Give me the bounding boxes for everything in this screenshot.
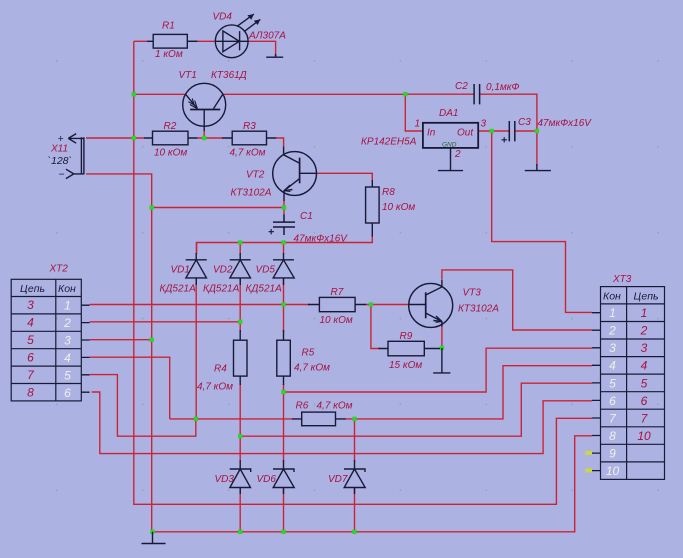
- pin mark XT3 pin9 yellow: [586, 451, 593, 455]
- LED VD4: [215, 14, 260, 58]
- wire VD5 bottom to pin1 row: [283, 279, 285, 305]
- wire R4 top lead: [239, 322, 241, 332]
- svg-text:АЛ307А: АЛ307А: [248, 31, 286, 42]
- svg-text:1: 1: [609, 306, 616, 320]
- capacitor C1: [269, 215, 296, 236]
- node VT3 emitter R9: [440, 346, 444, 350]
- svg-text:1: 1: [415, 119, 421, 130]
- svg-text:КТ361Д: КТ361Д: [211, 70, 247, 81]
- wire VD6 top lead: [283, 392, 285, 461]
- svg-text:6: 6: [27, 351, 34, 365]
- svg-text:4,7 кОм: 4,7 кОм: [230, 148, 266, 159]
- svg-text:4,7 кОм: 4,7 кОм: [317, 401, 353, 412]
- diode VD6: [273, 460, 294, 494]
- svg-text:1: 1: [641, 306, 648, 320]
- connector X11: [66, 134, 84, 179]
- svg-text:10 кОм: 10 кОм: [320, 315, 353, 326]
- svg-text:Цепь: Цепь: [20, 283, 45, 295]
- wire VD1 column: [196, 243, 198, 255]
- wire main left rail from R1 down to bottom then right, up to XT3 pin7: [134, 41, 592, 504]
- XT3 numbers: [606, 306, 651, 478]
- wire VD1 bottom link up to R6 node: [189, 419, 196, 436]
- wire VD6 bottom to ground rail: [283, 488, 285, 532]
- connector table XT2: [11, 279, 89, 401]
- connector table XT3: [592, 287, 665, 480]
- resistor R7: [308, 297, 366, 311]
- resistor R8: [366, 180, 380, 237]
- transistor VT3: [409, 280, 453, 328]
- svg-text:2: 2: [640, 324, 648, 338]
- wire R1 to VD4: [187, 40, 215, 42]
- resistor R3: [222, 131, 276, 145]
- svg-text:1 кОм: 1 кОм: [155, 49, 183, 60]
- wire XT2 pin2 to VD2 column: [90, 321, 241, 323]
- svg-text:С1: С1: [300, 211, 313, 222]
- svg-text:ХТ3: ХТ3: [612, 274, 632, 285]
- svg-text:С3: С3: [518, 117, 531, 128]
- node ground rail left: [150, 530, 154, 534]
- node DA1 out: [490, 129, 494, 133]
- svg-text:2: 2: [454, 149, 461, 160]
- svg-text:4: 4: [609, 359, 616, 373]
- resistor R2: [144, 131, 198, 145]
- wire C1 bottom rail to R8 bottom: [197, 235, 373, 254]
- wire ground column to C1 top node: [152, 207, 284, 209]
- wire VT2 emitter to ground node: [283, 201, 285, 208]
- wire R4 bottom to pin5 link node: [239, 384, 241, 436]
- svg-text:In: In: [427, 128, 436, 139]
- wire XT2 pin5 down to VD1 bottom link: [90, 375, 189, 437]
- diode VD1: [186, 253, 207, 285]
- capacitor C3: [502, 121, 515, 143]
- wire VT3 collector to XT3 pin2: [442, 270, 592, 330]
- node ground column top: [150, 205, 154, 209]
- wire XT2 pin3 to ground column: [90, 339, 152, 341]
- wire R5 bottom to XT3 pin3 node: [283, 384, 285, 392]
- svg-text:С2: С2: [455, 81, 468, 92]
- svg-text:5: 5: [641, 377, 648, 391]
- wire VD3 top lead: [239, 436, 241, 461]
- diode VD3: [230, 460, 251, 494]
- wire VT1 collector to DA1 input node: [223, 93, 405, 95]
- svg-text:15 кОм: 15 кОм: [389, 360, 422, 371]
- XT2 circuit numbers: [27, 298, 71, 400]
- voltage regulator DA1: [423, 123, 478, 148]
- transistor VT2: [273, 147, 317, 202]
- svg-text:R7: R7: [331, 287, 344, 298]
- svg-text:10: 10: [606, 464, 620, 478]
- wire R7 right to VT3 base: [365, 304, 409, 306]
- svg-text:VD6: VD6: [257, 474, 277, 485]
- pin mark XT3 pin10 yellow: [586, 468, 593, 472]
- svg-text:8: 8: [609, 429, 616, 443]
- node VT2 emitter C1: [282, 205, 286, 209]
- resistor R6: [292, 412, 346, 426]
- node VD5 bottom R5: [281, 302, 285, 306]
- wire C2 right to ground node: [480, 94, 537, 131]
- wire X11 minus to ground column down to ground rail: [86, 174, 152, 532]
- svg-text:R9: R9: [400, 331, 413, 342]
- wire R9 left to base node: [371, 305, 380, 349]
- wire VT3 emitter to R9 node: [441, 326, 443, 348]
- svg-text:VT1: VT1: [179, 70, 197, 81]
- svg-text:ХТ2: ХТ2: [49, 264, 69, 275]
- svg-text:10 кОм: 10 кОм: [154, 148, 187, 159]
- node R9 top: [369, 302, 373, 306]
- svg-text:КТ3102А: КТ3102А: [231, 188, 272, 199]
- wire XT2 pin1 row to R7: [90, 304, 310, 306]
- wire DA1 input: [405, 94, 423, 131]
- svg-text:КД521А: КД521А: [203, 284, 240, 295]
- resistor R1: [147, 34, 198, 48]
- node VD1 bottom R6 left: [194, 417, 198, 421]
- wire ground rail to XT3 pin8: [153, 436, 593, 532]
- svg-text:КР142ЕН5А: КР142ЕН5А: [361, 137, 417, 148]
- svg-text:6: 6: [609, 394, 616, 408]
- svg-text:GND: GND: [442, 142, 457, 149]
- wire input node to C2: [405, 93, 474, 95]
- svg-text:1: 1: [64, 299, 71, 313]
- node VD2 bottom R4 pin2: [238, 320, 242, 324]
- svg-text:R6: R6: [296, 401, 309, 412]
- wire pin5 link node to XT3 pin5: [240, 383, 592, 436]
- TABLES: [11, 279, 664, 479]
- svg-text:Out: Out: [457, 128, 474, 139]
- svg-text:10: 10: [637, 429, 651, 443]
- wire out node to XT3 pin1: [492, 131, 592, 312]
- diode VD2: [230, 253, 251, 285]
- ground VT3: [433, 348, 450, 373]
- wire VD3 bottom to ground rail: [239, 488, 241, 532]
- node VD2 top: [238, 240, 242, 244]
- svg-text:3: 3: [64, 334, 71, 348]
- svg-text:R4: R4: [214, 364, 227, 375]
- svg-text:8: 8: [27, 386, 34, 400]
- node XT2 pin3 ground: [150, 338, 154, 342]
- svg-text:5: 5: [609, 377, 616, 391]
- wire R3 right to VT2 collector: [276, 138, 284, 147]
- svg-text:47мкФх16V: 47мкФх16V: [294, 234, 349, 245]
- wire VD2 top lead: [239, 243, 241, 255]
- wire DA1 out to C3: [478, 130, 509, 132]
- svg-text:R5: R5: [302, 348, 315, 359]
- capacitor C2: [474, 84, 480, 104]
- svg-text:10 кОм: 10 кОм: [382, 202, 415, 213]
- wire VD2 bottom to pin2 row: [239, 279, 241, 322]
- svg-text:4,7 кОм: 4,7 кОм: [197, 382, 233, 393]
- wire XT3 pin3 node to pin3: [284, 348, 593, 392]
- svg-text:Х11: Х11: [50, 144, 68, 155]
- ground VD4: [266, 54, 283, 57]
- svg-text:`128`: `128`: [48, 155, 73, 167]
- wire R5 top lead: [283, 305, 285, 333]
- svg-text:3: 3: [609, 341, 616, 355]
- svg-text:3: 3: [641, 341, 648, 355]
- svg-text:КД521А: КД521А: [160, 284, 197, 295]
- ground main: [142, 532, 166, 544]
- svg-text:VT3: VT3: [463, 288, 482, 299]
- wire XT2 pin4 right and down to R6 row: [90, 357, 170, 419]
- svg-text:R1: R1: [162, 21, 175, 32]
- ground C3: [525, 164, 551, 171]
- svg-text:4: 4: [27, 316, 34, 330]
- diode VD7: [344, 460, 365, 494]
- svg-text:4,7 кОм: 4,7 кОм: [294, 363, 330, 374]
- wire VT1 base down: [203, 131, 205, 139]
- wire R6 right to XT3 pin4: [345, 366, 593, 419]
- wire VT2 base to R8 top: [317, 173, 373, 181]
- node rail-VT1: [132, 92, 136, 96]
- node VD7 ground: [352, 530, 356, 534]
- wire X11 plus to rail: [86, 137, 144, 139]
- svg-text:DA1: DA1: [439, 108, 458, 119]
- wire VD1 bottom to R6 node: [195, 279, 197, 419]
- node VD3 ground: [238, 530, 242, 534]
- svg-text:VD4: VD4: [213, 12, 233, 23]
- node R6 right VD7: [352, 417, 356, 421]
- svg-text:КТ3102А: КТ3102А: [458, 304, 499, 315]
- wire rail to VT1 emitter: [134, 93, 186, 95]
- resistor R9: [379, 341, 441, 356]
- svg-text:VD3: VD3: [215, 474, 235, 485]
- svg-text:47мкФх16V: 47мкФх16V: [538, 118, 593, 129]
- svg-text:0,1мкФ: 0,1мкФ: [486, 82, 519, 93]
- wire C1 top lead: [283, 208, 285, 216]
- node rail-X11-R2: [132, 136, 136, 140]
- wire C3 right to ground drop: [515, 131, 537, 165]
- node VD6 ground: [281, 530, 285, 534]
- svg-text:VD5: VD5: [256, 265, 276, 276]
- ground DA1: [438, 148, 463, 171]
- node VT1 base R2 R3: [202, 136, 206, 140]
- svg-text:5: 5: [64, 369, 71, 383]
- wire R2 right to VT1 base junction: [198, 137, 223, 139]
- wire XT2 pin6 down right to XT3 pin6: [92, 392, 592, 454]
- wire VD7 bottom to ground rail: [354, 488, 356, 532]
- resistor R5: [277, 330, 291, 385]
- svg-text:2: 2: [63, 316, 71, 330]
- svg-text:R8: R8: [382, 187, 395, 198]
- svg-text:Цепь: Цепь: [634, 291, 659, 303]
- svg-text:6: 6: [641, 394, 648, 408]
- wire VD7 top to R6 right node: [354, 419, 356, 461]
- node C2 C3 ground: [535, 129, 539, 133]
- svg-text:3: 3: [27, 298, 34, 312]
- resistor R4: [234, 330, 248, 385]
- svg-text:4: 4: [64, 351, 71, 365]
- svg-text:9: 9: [609, 447, 616, 461]
- node R5 bottom VD6 pin3: [281, 390, 285, 394]
- svg-text:VD7: VD7: [328, 474, 348, 485]
- svg-text:2: 2: [608, 324, 616, 338]
- svg-text:5: 5: [27, 333, 34, 347]
- svg-text:4: 4: [641, 359, 648, 373]
- node DA1 input: [403, 92, 407, 96]
- svg-text:−: −: [59, 169, 65, 181]
- svg-text:VD1: VD1: [171, 265, 190, 276]
- wire R6 row: [170, 418, 293, 420]
- node R4 bottom VD3 pin5: [238, 434, 242, 438]
- wire R1 left lead: [134, 40, 147, 42]
- svg-text:VT2: VT2: [246, 170, 265, 181]
- node C1 bottom VD5: [281, 240, 285, 244]
- svg-text:КД521А: КД521А: [246, 284, 283, 295]
- transistor VT1: [183, 83, 226, 131]
- svg-text:R2: R2: [164, 121, 177, 132]
- svg-text:3: 3: [481, 119, 487, 130]
- svg-text:6: 6: [64, 386, 71, 400]
- svg-text:R3: R3: [243, 121, 256, 132]
- wire VD5 top lead: [283, 243, 285, 255]
- svg-text:Кон: Кон: [58, 283, 76, 295]
- diode VD5: [273, 253, 294, 285]
- svg-text:VD2: VD2: [213, 265, 233, 276]
- wire VD4 to ground: [248, 41, 276, 56]
- svg-text:Кон: Кон: [603, 291, 621, 303]
